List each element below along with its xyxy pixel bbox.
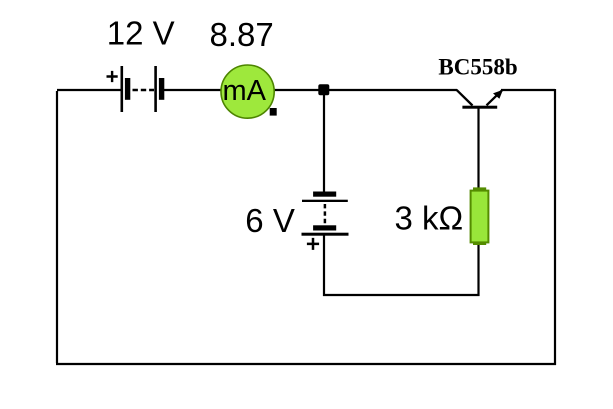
svg-text:3 kΩ: 3 kΩ — [395, 200, 464, 237]
svg-text:6 V: 6 V — [245, 202, 295, 239]
svg-text:BC558b: BC558b — [438, 55, 517, 80]
svg-text:8.87: 8.87 — [210, 16, 274, 53]
svg-text:12 V: 12 V — [107, 15, 175, 52]
svg-text:mA: mA — [222, 75, 266, 107]
